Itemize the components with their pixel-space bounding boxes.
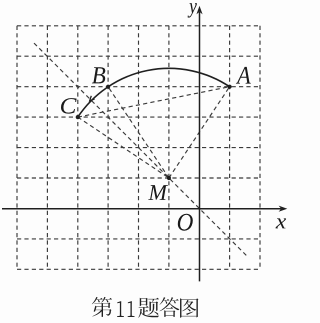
dashed diagonal line y=-x through M and O — [34, 43, 246, 255]
label M — [148, 185, 168, 200]
caption character 题 — [138, 298, 159, 318]
label A — [236, 67, 251, 84]
arrowhead on arc pointing toward C — [90, 96, 95, 101]
point C dot — [76, 115, 80, 119]
dashed segment C to A — [78, 87, 230, 117]
label C — [61, 98, 77, 114]
y-axis with arrowhead — [196, 6, 202, 282]
caption number 1 (first) — [117, 301, 124, 317]
caption character 答 — [160, 297, 180, 317]
caption character 第 — [92, 297, 112, 317]
grid horizontal dashed lines — [17, 26, 260, 269]
point M dot — [167, 176, 171, 180]
point B dot — [106, 85, 110, 89]
point A dot — [228, 85, 232, 89]
label y — [188, 3, 197, 18]
label x — [276, 218, 287, 228]
dashed segment M to B — [108, 87, 169, 178]
solid arc from C through B to A centered at M — [78, 68, 230, 117]
grid vertical dashed lines — [17, 26, 260, 269]
label O — [178, 214, 193, 231]
dashed segment M to A — [169, 87, 230, 178]
label B — [92, 67, 105, 83]
caption number 1 (second) — [128, 301, 135, 317]
caption character 图 — [180, 298, 198, 318]
x-axis with arrowhead — [2, 206, 287, 212]
dashed segment C to M — [78, 117, 169, 178]
